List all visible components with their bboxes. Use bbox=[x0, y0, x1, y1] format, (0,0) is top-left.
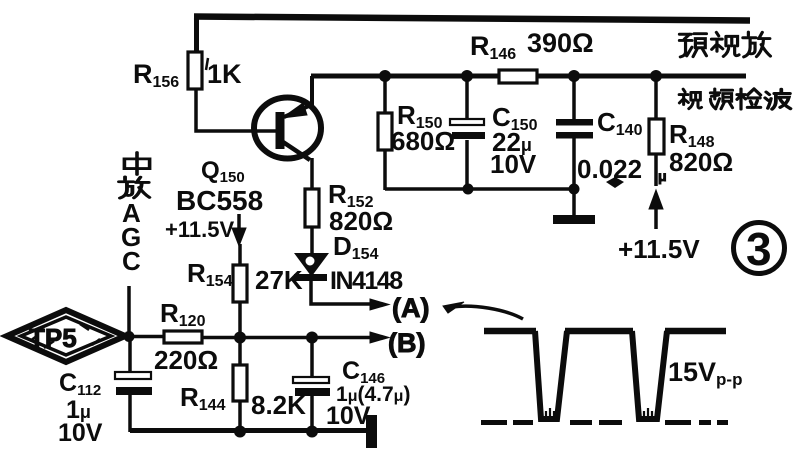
node A arrowhead bbox=[370, 299, 389, 310]
junction dot bottom bus C150 bbox=[463, 184, 474, 195]
svg-text:μ: μ bbox=[658, 168, 667, 184]
wire emitter up to rail2 bbox=[310, 76, 314, 106]
transistor collector diagonal bbox=[283, 142, 310, 160]
junction dot B-line C146 bbox=[306, 332, 318, 344]
curved arrow pointing to node A bbox=[452, 306, 523, 319]
hanzi jian bbox=[737, 89, 761, 109]
waveform baseline dash 5 bbox=[665, 420, 691, 425]
wire R148 top bbox=[654, 76, 658, 120]
capacitor C140 plate 2 bbox=[556, 132, 593, 139]
wire R150 bottom bbox=[383, 150, 387, 190]
wire C146 top bbox=[310, 338, 314, 378]
wire C140 bottom to ground bbox=[572, 138, 576, 216]
test point TP5 diamond outer bbox=[7, 310, 125, 362]
wire R156 top bbox=[194, 14, 199, 53]
resistor R152 bbox=[305, 189, 319, 227]
wire C112 bottom bbox=[128, 395, 132, 432]
svg-text:10V: 10V bbox=[490, 149, 537, 179]
svg-text:10V: 10V bbox=[58, 419, 103, 447]
wire R154 bottom bbox=[238, 302, 242, 338]
hanzi pin bbox=[710, 89, 732, 109]
hanzi shi (view) bbox=[711, 32, 739, 56]
waveform serration 2 bbox=[644, 408, 652, 418]
AGC input wire bbox=[127, 286, 131, 338]
wire arrow to R154 bbox=[238, 244, 242, 266]
svg-text:8.2K: 8.2K bbox=[251, 390, 306, 420]
svg-text:820Ω: 820Ω bbox=[329, 206, 393, 236]
junction dot rail2 C140 bbox=[568, 70, 580, 82]
svg-text:BC558: BC558 bbox=[176, 185, 263, 216]
svg-text:0.022: 0.022 bbox=[577, 154, 642, 184]
resistor R154 bbox=[233, 265, 247, 302]
wire bottom bus R150-C150-C140 bbox=[385, 187, 574, 191]
svg-text:+11.5V: +11.5V bbox=[618, 234, 700, 264]
junction dot rail2 R150 bbox=[379, 70, 391, 82]
wire collector down bbox=[310, 158, 314, 190]
svg-text:Q150: Q150 bbox=[201, 157, 245, 186]
svg-text:220Ω: 220Ω bbox=[154, 345, 218, 375]
transistor emitter diagonal with arrow bbox=[284, 105, 311, 117]
svg-text:TP5: TP5 bbox=[29, 323, 77, 353]
wire R144 bottom bbox=[238, 401, 242, 432]
wire diode to (A) bbox=[311, 279, 372, 304]
svg-text:IN4148: IN4148 bbox=[330, 267, 403, 295]
waveform pulse 2 bbox=[632, 331, 667, 419]
0.022 diamond blot bbox=[606, 177, 624, 188]
svg-text:10V: 10V bbox=[326, 402, 371, 430]
resistor R148 bbox=[649, 119, 664, 154]
wire R144 top bbox=[238, 338, 242, 366]
wire R156 bottom to base bbox=[196, 89, 277, 131]
test point TP5 diamond inner bbox=[21, 317, 111, 355]
waveform top segment 1 bbox=[484, 328, 536, 335]
junction dot rail2 R148 bbox=[650, 70, 662, 82]
svg-text:R120: R120 bbox=[160, 298, 206, 330]
ground stub at bus end bbox=[366, 415, 377, 448]
svg-text:R146: R146 bbox=[470, 31, 516, 63]
resistor R146 (in series on rail2) bbox=[499, 70, 537, 83]
wire R148 bottom bbox=[654, 154, 658, 186]
wire top rail +11.5V to pre-video amp bbox=[194, 17, 750, 21]
svg-text:(A): (A) bbox=[392, 293, 429, 323]
capacitor C150 plus plate (hollow) bbox=[450, 119, 484, 125]
waveform top segment 2 bbox=[565, 328, 633, 335]
transistor base bar bbox=[276, 112, 285, 149]
svg-text:820Ω: 820Ω bbox=[669, 147, 733, 177]
svg-text:(B): (B) bbox=[388, 328, 425, 358]
node B arrowhead bbox=[370, 332, 389, 343]
R156 tick mark bbox=[206, 58, 208, 70]
svg-text:C140: C140 bbox=[597, 107, 643, 139]
svg-text:3: 3 bbox=[746, 223, 772, 275]
waveform pulse 1 bbox=[535, 331, 567, 419]
capacitor C146 minus plate bbox=[295, 388, 330, 396]
junction dot rail2 C150 bbox=[461, 70, 473, 82]
wire C140 top bbox=[572, 76, 576, 120]
svg-text:27K: 27K bbox=[255, 265, 303, 295]
svg-text:1K: 1K bbox=[207, 59, 242, 89]
transistor Q150 circle bbox=[254, 98, 321, 159]
wire C150 bottom bbox=[465, 140, 469, 189]
hanzi fang2 (IF row) bbox=[119, 177, 149, 198]
waveform baseline dash 3 bbox=[570, 420, 592, 425]
waveform baseline dash 2 bbox=[513, 420, 533, 425]
hanzi fang (amp) bbox=[743, 32, 771, 57]
waveform baseline dash 7 bbox=[717, 420, 728, 425]
svg-text:680Ω: 680Ω bbox=[391, 126, 455, 156]
wire C112 top (from TP5 junction) bbox=[128, 338, 132, 373]
resistor R144 bbox=[233, 365, 247, 401]
capacitor C140 plate 1 bbox=[556, 119, 593, 126]
waveform baseline dash 6 bbox=[699, 420, 711, 425]
waveform baseline dash 4 bbox=[599, 420, 622, 425]
wire TP5 to R120 bbox=[123, 335, 165, 339]
svg-text:15Vp-p: 15Vp-p bbox=[668, 357, 742, 389]
capacitor C150 minus plate bbox=[452, 132, 485, 139]
+11.5V feed arrow up to R148 bbox=[654, 208, 658, 229]
svg-text:R156: R156 bbox=[133, 59, 179, 91]
hanzi shi2 (video-detect row) bbox=[679, 89, 701, 109]
wire C146 bottom bbox=[310, 396, 314, 432]
+11.5V down arrow to R154 bbox=[237, 214, 241, 230]
svg-text:R144: R144 bbox=[180, 382, 226, 414]
junction dot bus R144 bbox=[234, 426, 246, 438]
svg-text:390Ω: 390Ω bbox=[527, 28, 594, 58]
CJK labels drawn as strokes bbox=[119, 32, 791, 198]
hanzi zhong (IF) bbox=[124, 152, 149, 174]
junction dot bus C146 bbox=[306, 426, 318, 438]
svg-text:C: C bbox=[122, 246, 141, 276]
junction dot TP5/C112 bbox=[124, 331, 135, 342]
waveform serration 1 bbox=[546, 408, 554, 418]
wire R120 to (B) arrow bbox=[202, 336, 372, 340]
svg-text:R154: R154 bbox=[187, 258, 233, 290]
junction dot bottom bus C140 bbox=[569, 184, 580, 195]
svg-text:+11.5V: +11.5V bbox=[165, 217, 234, 242]
junction dot B-line R154 bbox=[234, 332, 246, 344]
hanzi yu (pre) bbox=[679, 34, 706, 57]
svg-text:C112: C112 bbox=[59, 369, 101, 399]
wire C150 top bbox=[465, 76, 469, 119]
capacitor C112 plus plate (hollow) bbox=[115, 372, 151, 379]
waveform baseline dash 1 bbox=[481, 420, 507, 425]
circled 3 mark bbox=[734, 223, 785, 274]
wire rail2 (video detector rail) bbox=[311, 74, 746, 79]
bottom ground bus bbox=[130, 428, 368, 433]
diode D154 cathode bar bbox=[294, 274, 327, 281]
resistor R150 bbox=[378, 113, 392, 150]
ground under C140 bbox=[553, 215, 595, 224]
resistor R120 bbox=[164, 331, 202, 343]
transistor emitter arrow (PNP) bbox=[282, 103, 307, 118]
capacitor C112 minus plate bbox=[116, 387, 152, 395]
diode D154 bbox=[296, 254, 327, 275]
waveform top segment 3 bbox=[665, 328, 726, 335]
wire R150 top bbox=[383, 76, 387, 114]
hanzi bo bbox=[765, 89, 790, 109]
wire R152 to D154 bbox=[310, 227, 314, 256]
capacitor C146 plus plate (hollow) bbox=[293, 377, 329, 383]
resistor R156 bbox=[188, 52, 202, 89]
